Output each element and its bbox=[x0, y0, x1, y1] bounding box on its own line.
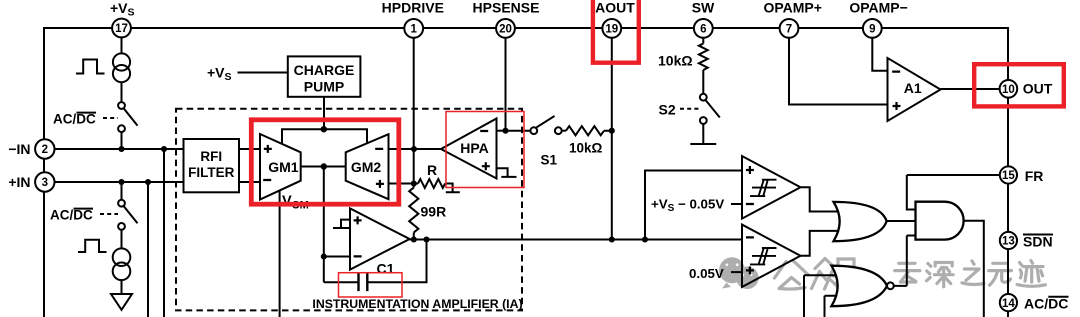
svg-text:99R: 99R bbox=[421, 204, 447, 220]
pin 14 bbox=[1000, 294, 1017, 311]
watermark logo bbox=[719, 257, 881, 289]
svg-text:+VS: +VS bbox=[110, 0, 135, 19]
svg-text:+VS: +VS bbox=[207, 65, 232, 84]
pin 1 bbox=[404, 19, 423, 38]
svg-text:C1: C1 bbox=[377, 261, 395, 277]
watermark glyph wu bbox=[989, 263, 1012, 285]
switch S1 bbox=[506, 130, 531, 132]
wire NOR out to AND bbox=[894, 236, 915, 286]
svg-text:FILTER: FILTER bbox=[188, 165, 234, 180]
wire HPSENSE drop bbox=[505, 38, 507, 131]
svg-text:15: 15 bbox=[1002, 170, 1015, 182]
svg-text:AOUT: AOUT bbox=[595, 0, 635, 16]
svg-text:AC/DC: AC/DC bbox=[1024, 296, 1068, 312]
op-amp IA integrator bbox=[350, 208, 410, 269]
watermark glyph shen bbox=[927, 263, 954, 287]
pin 15 bbox=[1000, 166, 1017, 183]
wire NOR input B bbox=[825, 296, 841, 317]
nor bubble bbox=[887, 282, 894, 289]
switch AC/DC bottom bbox=[118, 200, 125, 207]
wire -IN bbox=[54, 148, 183, 150]
watermark glyph zhong bbox=[812, 259, 840, 290]
junction charge pump node bbox=[321, 126, 327, 132]
svg-text:INSTRUMENTATION AMPLIFIER (IA): INSTRUMENTATION AMPLIFIER (IA) bbox=[312, 297, 522, 311]
resistor 10k S1 bbox=[566, 126, 612, 135]
junction comparator branch node bbox=[642, 236, 648, 242]
wire +IN chain bbox=[121, 182, 123, 294]
pulse symbol bbox=[76, 60, 105, 74]
svg-text:FR: FR bbox=[1025, 168, 1044, 184]
wire RFI to GM1 bbox=[239, 149, 260, 182]
IA dashed box bbox=[176, 109, 522, 311]
wire CMP1 out bbox=[801, 187, 841, 211]
red highlight box OUT bbox=[974, 64, 1064, 106]
capacitor C1 loop bbox=[324, 240, 427, 283]
pin 13 bbox=[1000, 232, 1017, 249]
svg-text:PUMP: PUMP bbox=[304, 79, 344, 95]
pulse symbol bbox=[78, 240, 107, 252]
pin 19 bbox=[602, 19, 621, 38]
wire OPAMP+ drop bbox=[789, 38, 888, 105]
svg-text:19: 19 bbox=[605, 24, 618, 36]
junction 99R/rail node bbox=[411, 236, 417, 242]
svg-text:AC/DC: AC/DC bbox=[50, 208, 93, 223]
wire OPAMP- drop bbox=[872, 38, 887, 71]
svg-text:GM1: GM1 bbox=[268, 159, 299, 175]
junction +IN/switch bbox=[118, 179, 124, 185]
svg-text:+IN: +IN bbox=[8, 174, 30, 190]
red highlight box C1 bbox=[339, 273, 403, 297]
svg-text:CHARGE: CHARGE bbox=[294, 62, 355, 78]
junction +IN/comparator tap bbox=[145, 179, 151, 185]
junction HPDRIVE node bbox=[411, 146, 417, 152]
svg-text:SW: SW bbox=[692, 0, 715, 16]
comparator CMP1 bbox=[742, 156, 801, 219]
wire comparator plus branch bbox=[645, 171, 742, 240]
wire Vcm/C1 vertical bbox=[323, 167, 325, 283]
pin 3 bbox=[35, 172, 54, 191]
transconductance amp GM2 bbox=[346, 134, 389, 199]
svg-text:SDN: SDN bbox=[1023, 234, 1053, 250]
svg-text:S1: S1 bbox=[541, 153, 558, 168]
wire node -IN vertical bbox=[163, 149, 165, 317]
op-amp A1 bbox=[888, 58, 941, 121]
switch S2 bbox=[700, 94, 707, 101]
pin 9 bbox=[863, 19, 882, 38]
svg-text:R: R bbox=[427, 162, 437, 178]
svg-text:3: 3 bbox=[42, 177, 48, 189]
junction IA minus node bbox=[321, 253, 327, 259]
svg-text:−IN: −IN bbox=[8, 141, 30, 157]
svg-text:S2: S2 bbox=[659, 102, 676, 118]
junction C1/rail node bbox=[423, 236, 429, 242]
svg-text:AC/DC: AC/DC bbox=[53, 112, 96, 127]
RFI filter box bbox=[184, 139, 240, 192]
comparator CMP2 bbox=[742, 225, 801, 287]
svg-text:10kΩ: 10kΩ bbox=[569, 141, 603, 156]
svg-text:10kΩ: 10kΩ bbox=[658, 53, 693, 69]
wire +Vs to charge pump bbox=[238, 72, 288, 74]
watermark glyph zhi bbox=[962, 261, 984, 285]
step symbol HPA bbox=[497, 168, 517, 177]
watermark glyph hao bbox=[834, 259, 858, 290]
pin 20 bbox=[496, 19, 515, 38]
pin 6 bbox=[694, 19, 713, 38]
red highlight box HPA bbox=[446, 112, 524, 188]
wire IA minus input bbox=[324, 256, 350, 258]
resistor 99R bbox=[409, 188, 418, 233]
schmitt symbol CMP2 bbox=[750, 248, 777, 265]
current source I2 bbox=[113, 248, 131, 266]
svg-text:10: 10 bbox=[1002, 84, 1015, 96]
junction R/99R node bbox=[411, 180, 417, 186]
svg-text:OPAMP+: OPAMP+ bbox=[763, 0, 821, 16]
switch AC/DC top bbox=[118, 102, 125, 109]
and gate U3 bbox=[916, 202, 964, 240]
svg-text:A1: A1 bbox=[904, 80, 922, 96]
wire A1 out bbox=[941, 88, 1000, 90]
resistor R bbox=[418, 179, 445, 188]
watermark glyph gong bbox=[775, 261, 809, 289]
svg-text:HPA: HPA bbox=[460, 140, 489, 156]
pin 10 bbox=[1000, 80, 1018, 98]
junction GM1-GM2 node bbox=[321, 163, 327, 169]
wire HPDRIVE drop bbox=[413, 38, 415, 240]
wire OR to AND bbox=[887, 220, 916, 222]
wire charge pump drop bbox=[323, 97, 325, 129]
wire AOUT drop bbox=[611, 38, 613, 240]
wire GM2 plus out bbox=[389, 183, 419, 185]
wire HPA minus input bbox=[497, 130, 506, 132]
wire AND out bbox=[964, 221, 984, 317]
svg-text:2: 2 bbox=[42, 144, 48, 156]
svg-text:HPSENSE: HPSENSE bbox=[473, 0, 540, 16]
red highlight box AOUT bbox=[593, 0, 639, 63]
pin 17 bbox=[112, 19, 131, 38]
svg-text:17: 17 bbox=[115, 23, 128, 35]
wire NOR input A bbox=[804, 275, 842, 317]
svg-text:0.05V: 0.05V bbox=[689, 266, 724, 281]
svg-text:1: 1 bbox=[410, 24, 417, 36]
watermark logo eyes bbox=[727, 265, 752, 275]
junction HPSENSE node bbox=[502, 128, 508, 134]
svg-text:6: 6 bbox=[700, 24, 706, 36]
junction -IN/comparator tap bbox=[161, 146, 167, 152]
wire GM2 minus out to HPA bbox=[389, 148, 442, 150]
ground S2 bbox=[690, 124, 716, 144]
watermark glyph ji bbox=[1017, 261, 1045, 287]
svg-text:RFI: RFI bbox=[200, 149, 222, 164]
wire Vcm drop bbox=[279, 190, 281, 317]
watermark glyph yun bbox=[895, 263, 920, 282]
svg-text:9: 9 bbox=[869, 24, 875, 36]
wire SW drop bbox=[702, 38, 704, 94]
pin 2 bbox=[35, 139, 54, 158]
wire CMP2 label lead bbox=[731, 271, 742, 273]
svg-text:OPAMP−: OPAMP− bbox=[849, 0, 907, 16]
op-amp HPA bbox=[441, 119, 497, 179]
schmitt symbol CMP1 bbox=[750, 179, 777, 196]
svg-text:OUT: OUT bbox=[1023, 81, 1053, 97]
wire GM top loop bbox=[282, 129, 367, 144]
charge pump box bbox=[288, 56, 361, 96]
current source I1 bbox=[113, 53, 130, 70]
svg-text:20: 20 bbox=[499, 24, 512, 36]
nor gate U4 bbox=[831, 266, 887, 307]
junction -IN/switch bbox=[118, 146, 124, 152]
svg-text:GM2: GM2 bbox=[351, 159, 382, 175]
svg-text:14: 14 bbox=[1002, 298, 1015, 310]
svg-text:7: 7 bbox=[786, 24, 792, 36]
ground R bbox=[445, 184, 460, 193]
svg-text:13: 13 bbox=[1002, 236, 1015, 248]
or gate U2 bbox=[834, 202, 887, 241]
svg-text:HPDRIVE: HPDRIVE bbox=[382, 0, 444, 16]
wire IA output rail bbox=[410, 239, 742, 241]
step symbol IA bbox=[333, 220, 350, 228]
svg-text:+VS − 0.05V: +VS − 0.05V bbox=[651, 197, 724, 214]
wire S1 to resistor bbox=[562, 130, 566, 132]
wire CMP1 label lead bbox=[731, 203, 742, 205]
wire pin17 drop bbox=[121, 38, 123, 150]
wire FR net bbox=[907, 175, 1000, 210]
pin 7 bbox=[780, 19, 799, 38]
transconductance amp GM1 bbox=[260, 134, 301, 200]
wire node +IN vertical bbox=[147, 182, 149, 317]
wire CMP2 out bbox=[801, 231, 841, 256]
red highlight box GM1/GM2 bbox=[251, 120, 398, 204]
junction AOUT/rail node bbox=[609, 236, 615, 242]
resistor 10k SW bbox=[699, 44, 708, 71]
junction 10k/AOUT node bbox=[609, 128, 615, 134]
ground bbox=[111, 294, 132, 310]
wire GM1-GM2 link bbox=[301, 166, 346, 168]
wire +IN bbox=[54, 181, 183, 183]
